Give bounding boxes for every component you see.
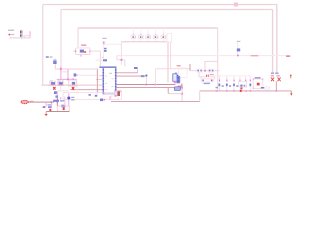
transistor Q1 body — [173, 74, 177, 82]
crystal area faint box — [104, 43, 122, 45]
box outline bottom — [57, 106, 69, 111]
header P1 bar — [29, 31, 30, 36]
resistor array RN1 boxes — [131, 35, 166, 38]
LED blue dot — [68, 93, 70, 106]
resistor array bottom stubs — [133, 39, 163, 42]
wire R series row — [190, 70, 197, 72]
wire y69 — [55, 68, 97, 70]
gray text net label mid right — [237, 41, 241, 42]
U2 box — [76, 48, 90, 55]
bus cap labels — [271, 72, 274, 74]
cap blue blob C — [103, 59, 107, 61]
junction dot mid — [204, 70, 206, 72]
wire from it — [54, 64, 56, 69]
wire cap2 to bus — [275, 81, 277, 90]
wire vertical x62.7 — [62, 79, 64, 85]
node label top right — [234, 3, 238, 7]
connector J1 body line — [20, 30, 22, 39]
wire left y89.7 — [70, 89, 103, 91]
loop wire above R series — [205, 61, 218, 70]
crystal label — [102, 38, 106, 39]
stub verticals magenta — [45, 102, 47, 106]
transistor glyph B — [57, 81, 63, 86]
wire array bottom bus — [121, 42, 168, 83]
bottom bus y90.9 — [200, 90, 292, 92]
cap label red — [210, 74, 214, 75]
U1 ref text — [109, 73, 112, 74]
R series box 1 — [197, 69, 202, 72]
junction tick — [24, 37, 25, 39]
cap wires — [199, 71, 206, 77]
row bottom stubs — [219, 86, 250, 91]
bottom mid cluster — [100, 99, 103, 102]
selection rect bottom mid — [63, 93, 121, 100]
blue mark — [89, 94, 91, 96]
U1 right pin wire 4 — [117, 87, 175, 89]
wire mid-right horizontal y66.7 — [156, 68, 190, 70]
magenta wire y79.4 — [57, 78, 77, 80]
dark component — [117, 91, 120, 96]
transistor glyph A — [50, 81, 56, 86]
red X noconnect A — [53, 87, 55, 90]
wire second vertical — [170, 42, 172, 69]
junction dot — [181, 87, 183, 89]
cap blue blob B — [103, 50, 107, 52]
U2 pin down — [80, 55, 82, 57]
pink tick — [102, 57, 103, 58]
U1 right pin wire 3 — [117, 84, 176, 86]
inductor label blue — [204, 83, 210, 84]
component box right — [69, 80, 77, 86]
inductor pill — [201, 79, 214, 82]
junction dot — [237, 55, 239, 57]
wire pill left vertical — [200, 77, 202, 79]
U1 right pin wire 1 — [117, 72, 138, 74]
wire vertical x78 — [77, 28, 79, 47]
U2 glyph blue — [80, 50, 84, 53]
cap blue blob A — [103, 48, 107, 50]
red text on faint line — [251, 55, 259, 56]
wire long vertical x217.7 — [217, 28, 219, 91]
wire horizontal y85.1 — [41, 84, 102, 86]
fuse label red — [30, 101, 34, 103]
diode glyph on it — [237, 48, 240, 51]
buzzer BZ1 — [255, 77, 261, 79]
U1 left pin stub 2 — [96, 78, 102, 80]
wire connecting row tops — [215, 75, 251, 77]
blue diode mid — [74, 73, 77, 76]
transistor Q bottom — [53, 100, 59, 102]
row magenta ticks — [219, 80, 251, 82]
crystal gray box — [114, 91, 117, 96]
wire bottom y111.4 — [46, 110, 69, 112]
junction dot — [121, 59, 123, 61]
crystal pink element — [103, 41, 105, 45]
junction dot — [60, 68, 62, 70]
power arrow mid right — [290, 75, 292, 77]
left mid labels — [46, 56, 49, 58]
connector J1 pin2 pad — [20, 35, 22, 37]
wire y93.6 — [168, 93, 182, 95]
U1 left pin stub 1 — [99, 75, 103, 77]
Q1 label bottom red — [178, 86, 183, 88]
wire vertical x168 — [167, 88, 169, 94]
bus end down + power arrow — [290, 91, 292, 94]
wire vertical left of U1 — [96, 69, 98, 93]
wire J1 to P1 — [22, 35, 29, 37]
LED labels — [71, 97, 74, 98]
bus junction dots — [216, 90, 278, 92]
connector J1 label text — [8, 30, 14, 31]
magenta tick — [60, 97, 61, 99]
red cap blob — [49, 109, 51, 112]
U1 right pin wire 2 — [117, 75, 147, 77]
diode D bottom — [174, 87, 180, 91]
capacitor C plates — [205, 75, 208, 77]
red blob on bus — [240, 90, 242, 92]
bottom row component stubs — [219, 76, 250, 80]
tall box component — [167, 33, 172, 42]
wire lower left — [9, 37, 30, 38]
wire fuse to right — [28, 101, 54, 103]
net label right of U1 top — [134, 67, 138, 69]
U1 IC right bar — [115, 67, 116, 95]
U2 glyph red — [84, 51, 86, 53]
red mark under box4 — [240, 87, 242, 89]
wire vertical x68 — [67, 69, 69, 79]
second blue glyph — [55, 95, 58, 97]
red X noconnect B — [72, 87, 74, 90]
faint vline x77 — [76, 86, 78, 92]
wire mid horizontal y28 — [78, 27, 218, 29]
wire right bus vertical A — [272, 10, 274, 73]
wire left inner vertical — [60, 10, 62, 67]
wire top outer horizontal — [43, 4, 277, 6]
left mid diode glyph — [53, 60, 56, 64]
cap X symbol 2 — [278, 78, 281, 82]
U1 right pin wire 5 — [117, 90, 122, 92]
wire vertical x70 — [64, 97, 66, 107]
wire vertical x155.3 — [155, 69, 157, 85]
wire top pin network — [120, 42, 122, 65]
U2 label — [81, 44, 86, 46]
Q1 label red — [177, 65, 181, 67]
wire right bus vertical B — [276, 5, 278, 73]
Q1 outline box — [179, 68, 188, 78]
R series box 2 — [209, 69, 214, 72]
IC U1 left edge — [103, 67, 104, 95]
net label text on bus — [216, 87, 219, 89]
resistor array top stubs — [133, 28, 163, 35]
cap X symbol 1 — [271, 78, 274, 82]
wire vertical x182 — [181, 88, 183, 102]
wire U2 to U1 — [90, 51, 100, 66]
transistor glyph near rect — [54, 91, 57, 94]
U1 IC top bar — [99, 66, 116, 68]
wire corner right — [199, 91, 201, 102]
junction dot — [181, 93, 183, 95]
connector J1 pin1 pad — [20, 31, 22, 34]
wire left outer vertical — [42, 5, 44, 86]
red plus power — [45, 112, 48, 116]
wire bottom y101.6 — [111, 101, 200, 103]
wire vertical x237.8 — [237, 42, 239, 55]
wire vertical x190 maroon — [189, 64, 191, 71]
wire top inner horizontal — [61, 9, 273, 11]
diode row D2-D6 glyphs — [219, 81, 252, 87]
fuse F1 oval — [21, 100, 28, 103]
U1 IC bottom edge faint — [102, 93, 116, 96]
wire faint long horizontal y55.6 — [117, 55, 286, 57]
glyphs below — [61, 105, 65, 108]
